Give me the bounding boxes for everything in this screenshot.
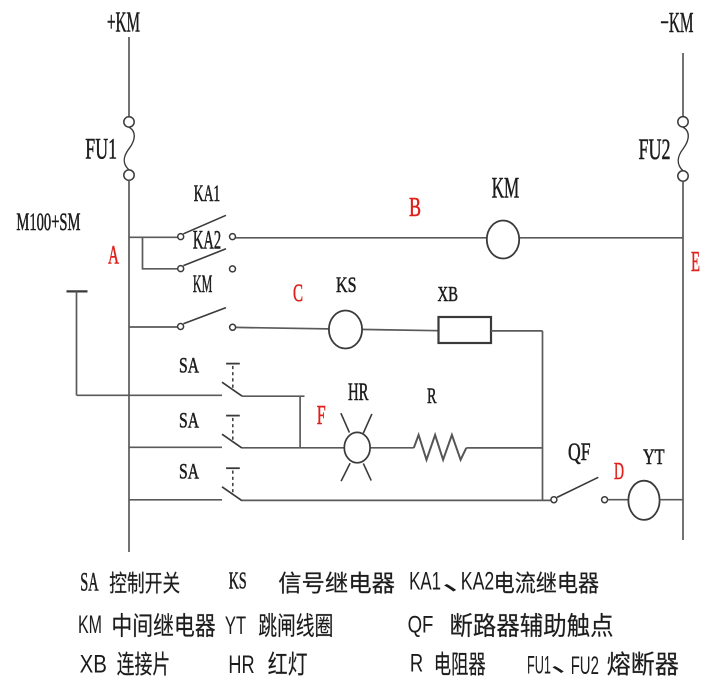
wire vertical XB down to QF row [542,331,544,500]
svg-text:FU1: FU1 [527,652,551,680]
coil KM [487,221,519,259]
wire vertical F link [299,396,301,448]
wire row C from bus to KM contact [129,326,178,328]
connector XB [439,317,492,343]
legend text 熔断器 [607,651,630,675]
wire row B from KA1 to right bus [236,237,683,239]
svg-text:XB: XB [438,282,459,306]
wire QF to YT [608,499,629,501]
svg-text:FU1: FU1 [85,134,117,166]
switch SA row 2 [222,416,242,449]
svg-text:KA1: KA1 [409,569,441,596]
svg-text:M100+SM: M100+SM [16,207,80,236]
contact KA2 [178,249,236,272]
svg-text:−KM: −KM [660,7,693,39]
svg-text:HR: HR [348,378,369,406]
legend text 电流继电器 [496,572,514,594]
wire R to vertical [466,447,542,449]
wire row SA2 right to HR [242,447,414,449]
wire XB to vertical [491,330,543,332]
wire row SA3 right to QF [242,499,551,501]
svg-text:R: R [410,651,423,678]
svg-text:YT: YT [643,444,665,469]
svg-text:SA: SA [179,408,199,432]
svg-text:R: R [427,383,437,408]
terminal T symbol [67,290,88,292]
svg-text:QF: QF [568,438,591,466]
contact KM [178,308,236,331]
switch SA row 1 [222,364,242,397]
wire left bus top [128,37,130,117]
wire left bus main [128,180,130,552]
svg-text:KA2: KA2 [193,225,221,255]
fuse FU2 [678,117,688,182]
svg-text:XB: XB [80,652,107,679]
svg-text:D: D [614,459,624,485]
svg-text:SA: SA [179,353,199,377]
legend text 红灯 [268,652,286,675]
switch SA row 3 [222,468,242,501]
legend text 电阻器 [436,652,450,675]
svg-text:+KM: +KM [107,7,140,39]
contact QF [551,477,608,502]
svg-text:F: F [317,400,326,430]
coil YT [628,481,659,520]
svg-text:B: B [409,192,421,222]
svg-text:KM: KM [492,173,520,205]
wire row A from bus to KA1 [129,236,178,238]
svg-text:QF: QF [408,612,434,639]
wire YT to right bus [660,499,683,501]
svg-text:KM: KM [193,271,212,298]
svg-text:E: E [691,247,700,278]
wire T down to SA1 row [76,291,78,395]
svg-text:KA2: KA2 [461,569,494,596]
legend text 中间继电器 [113,613,130,637]
legend text 断路器辅助触点 [451,613,472,637]
legend text 连接片 [117,652,134,676]
svg-text:SA: SA [80,567,98,597]
relay coil KS [329,311,362,349]
svg-text:KS: KS [229,568,247,595]
svg-text:HR: HR [228,652,254,679]
wire right bus main [682,181,684,540]
wire row SA3 left [129,499,222,501]
legend text 信号继电器 [279,572,300,594]
svg-text:SA: SA [179,459,199,483]
wire row SA2 left [129,446,222,448]
fuse FU1 [124,117,134,181]
wire row SA1 right [242,395,305,397]
wire right bus top [682,53,684,117]
svg-text:KA1: KA1 [194,181,220,207]
svg-text:KS: KS [336,272,357,297]
contact KA1 [178,215,236,239]
svg-text:C: C [293,280,303,307]
legend text 控制开关 [110,571,127,593]
legend text 跳闸线圈 [259,613,277,637]
wire branch A to KA2 [143,237,178,268]
wire row SA1 left [77,394,223,396]
svg-text:YT: YT [225,613,246,640]
svg-text:FU2: FU2 [639,134,671,166]
lamp HR [341,413,372,481]
resistor R [414,435,467,460]
wire KM contact to XB [236,327,439,330]
svg-text:KM: KM [78,612,102,639]
svg-text:FU2: FU2 [571,652,599,680]
svg-text:A: A [108,241,119,270]
